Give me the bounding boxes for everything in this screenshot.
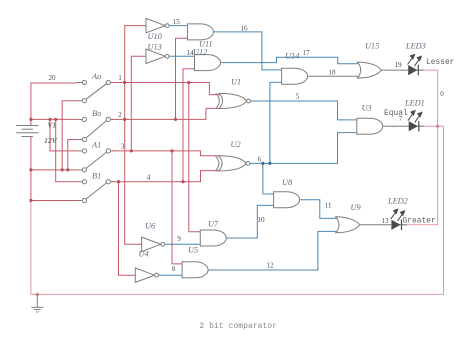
LED1 xyxy=(408,111,425,132)
svg-text:A1: A1 xyxy=(91,141,101,150)
ground symbol xyxy=(31,294,43,312)
switch A0 xyxy=(77,80,114,102)
svg-text:13: 13 xyxy=(381,217,389,225)
svg-text:20: 20 xyxy=(48,74,56,82)
OR gate U15 xyxy=(357,62,381,78)
svg-text:19: 19 xyxy=(394,61,402,69)
wire net0 to bottom rail and ground xyxy=(31,126,444,294)
wire net15 U10 output to U11 top input xyxy=(169,25,187,27)
svg-text:Bo: Bo xyxy=(92,109,101,118)
AND gate U12 xyxy=(195,55,221,71)
svg-text:11: 11 xyxy=(325,202,332,210)
AND gate U8 xyxy=(274,192,300,208)
wire net4 branch up to U12 bottom input xyxy=(183,69,195,182)
NOT gate U6 xyxy=(142,237,165,251)
svg-text:15: 15 xyxy=(173,18,181,26)
junction net0 ground xyxy=(36,293,39,296)
svg-text:4: 4 xyxy=(147,174,151,182)
junction B1 branch xyxy=(54,118,57,121)
junction A0 lower on ground row xyxy=(61,168,64,171)
wire net6 U2 output to U3 bottom input xyxy=(250,133,357,164)
wire ground row to A1 lower throw xyxy=(31,169,77,171)
wire net14 U13 output to U12 top input xyxy=(169,55,194,57)
svg-text:9: 9 xyxy=(177,235,181,243)
LED3 xyxy=(408,55,425,76)
XNOR gate U2 xyxy=(215,156,250,171)
svg-text:U2: U2 xyxy=(231,140,241,149)
svg-text:10: 10 xyxy=(257,216,265,224)
wire net16 U11 output to U14 top input xyxy=(214,32,282,70)
AND gate U14 xyxy=(282,68,308,84)
wire net6 branch up to U14 bottom input xyxy=(270,82,282,163)
svg-text:U14: U14 xyxy=(285,52,299,61)
junction net4 U12 branch xyxy=(181,180,184,183)
wire net4 B1 common to U2 bottom input xyxy=(112,171,220,182)
svg-text:12V: 12V xyxy=(44,136,58,145)
junction A1 branch xyxy=(48,118,51,121)
NOT gate U13 xyxy=(146,49,169,63)
wire net2 B0 common to U1 bottom input xyxy=(112,108,221,119)
svg-text:U3: U3 xyxy=(362,104,372,113)
wire net20 branch to A1 upper throw xyxy=(50,119,77,150)
wire net13 U9 output to LED2 xyxy=(360,224,392,226)
junction battery minus A1 row xyxy=(29,168,32,171)
switch B1 xyxy=(77,180,114,203)
AND gate U7 xyxy=(200,230,226,246)
wire net8 U4 output to U5 bottom input xyxy=(158,274,182,276)
wire net17 U12 output to U15 top input xyxy=(221,57,362,64)
svg-text:8: 8 xyxy=(172,265,176,273)
wire net1 branch to U10 input and down to U6 input xyxy=(125,26,146,245)
wire net2 branch up to U11 bottom input xyxy=(176,38,188,119)
wire net20 row to B0 upper throw xyxy=(31,118,77,120)
junction net2 U6 branch xyxy=(123,118,126,121)
svg-text:U12: U12 xyxy=(193,48,207,57)
wire net3 branch to U13 input xyxy=(131,56,146,151)
wire net11 U8 output to U9 top input xyxy=(300,200,340,219)
XNOR gate U1 xyxy=(216,93,251,108)
NOT gate U10 xyxy=(146,18,169,32)
AND gate U3 xyxy=(357,118,383,134)
wire net6 branch down to U8 top input xyxy=(263,163,274,194)
svg-text:6: 6 xyxy=(258,156,262,164)
svg-text:3: 3 xyxy=(121,143,125,151)
svg-text:Ao: Ao xyxy=(91,72,101,81)
svg-text:LED1: LED1 xyxy=(404,99,425,108)
svg-text:U15: U15 xyxy=(365,42,379,51)
wire net0 LED3 cathode down to LED2 xyxy=(402,70,438,225)
wire net20 branch to B1 upper throw xyxy=(56,119,77,181)
switch A1 xyxy=(77,149,114,172)
junction battery minus B1 row xyxy=(29,199,32,202)
wire A0 lower throw to ground row xyxy=(62,101,77,170)
wire net12 U5 output to U9 bottom input xyxy=(208,231,340,270)
svg-text:U9: U9 xyxy=(351,203,362,212)
wire net3 branch down to U5 top input xyxy=(172,151,182,264)
svg-text:2: 2 xyxy=(118,111,122,119)
wire net1 branch down to U7 top input xyxy=(189,83,201,232)
svg-text:Equal: Equal xyxy=(384,109,408,118)
junction net1 U7 branch xyxy=(187,81,190,84)
wire net9 U6 output to U7 bottom input xyxy=(165,243,201,245)
wire net18 U14 output to U15 bottom input xyxy=(308,75,361,77)
svg-text:U6: U6 xyxy=(145,222,156,231)
junction net0 LED1 xyxy=(436,125,439,128)
junction battery top row xyxy=(29,118,32,121)
junction net1 U10 branch xyxy=(123,81,126,84)
wire net3 A1 common to U2 top input xyxy=(112,151,220,156)
wire ground row to B1 lower throw xyxy=(31,200,77,202)
wire net10 U7 output to U8 bottom input xyxy=(226,205,273,238)
svg-text:2 bit comparator: 2 bit comparator xyxy=(199,322,277,331)
wire battery minus vertical upper xyxy=(30,137,32,201)
junction net6 U14 branch xyxy=(268,162,271,165)
svg-text:U13: U13 xyxy=(148,43,162,52)
junction net3 U13 branch xyxy=(130,149,133,152)
wire net19 U15 output to LED3 xyxy=(381,69,408,71)
svg-text:U4: U4 xyxy=(139,250,149,259)
wire net7 U3 output to LED1 xyxy=(383,125,409,127)
junction net4 U4 branch xyxy=(117,180,120,183)
svg-text:U8: U8 xyxy=(282,178,293,187)
wire net20 battery plus to A0 upper throw xyxy=(31,83,77,126)
NOT gate U4 xyxy=(135,268,158,282)
AND gate U5 xyxy=(182,262,208,278)
svg-text:U7: U7 xyxy=(208,220,219,229)
svg-text:LED3: LED3 xyxy=(405,42,426,51)
svg-text:V1: V1 xyxy=(48,121,57,130)
AND gate U11 xyxy=(188,24,214,40)
junction net6 U8 branch xyxy=(261,162,264,165)
junction net2 U11 branch xyxy=(174,118,177,121)
battery V1 xyxy=(16,126,39,137)
svg-text:17: 17 xyxy=(302,49,310,57)
svg-text:5: 5 xyxy=(296,93,300,101)
svg-text:16: 16 xyxy=(240,25,248,33)
svg-text:B1: B1 xyxy=(92,172,101,181)
svg-text:U1: U1 xyxy=(231,78,241,87)
svg-text:Greater: Greater xyxy=(403,217,436,226)
svg-text:12: 12 xyxy=(266,262,274,270)
junction net3 U5 branch xyxy=(170,149,173,152)
svg-text:Lesser: Lesser xyxy=(426,58,455,67)
wire net4 branch down to U4 input xyxy=(119,182,136,276)
svg-text:U5: U5 xyxy=(188,246,198,255)
LED2 xyxy=(391,209,407,230)
wire battery minus vertical to ground corner (net 0) xyxy=(30,201,32,295)
switch B0 xyxy=(77,117,114,141)
junction B0 lower on ground row xyxy=(66,168,69,171)
wire net1 A0 common to U1 top input xyxy=(112,83,221,95)
svg-text:U10: U10 xyxy=(148,32,163,41)
svg-text:18: 18 xyxy=(328,69,336,77)
svg-text:LED2: LED2 xyxy=(387,197,408,206)
svg-text:0: 0 xyxy=(440,90,444,98)
wire net5 U1 output to U3 top input xyxy=(250,101,357,120)
wire B0 lower throw to ground row xyxy=(68,140,77,170)
OR gate U9 xyxy=(336,217,360,233)
svg-text:1: 1 xyxy=(118,74,122,82)
wire net0 LED1 cathode xyxy=(419,125,438,127)
